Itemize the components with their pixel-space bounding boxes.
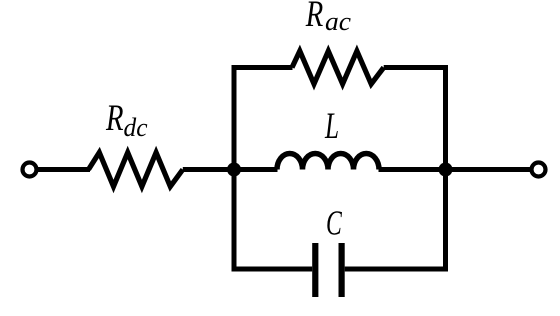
svg-text:L: L [324,106,339,147]
wire Rdc to node A [183,167,236,172]
right terminal [532,163,546,177]
resistor Rdc [89,153,183,187]
svg-text:dc: dc [124,113,148,142]
node B junction dot [439,163,453,177]
wire left terminal to Rdc [37,167,90,172]
node A junction dot [227,163,241,177]
capacitor C right plate [339,243,345,297]
wire bottom rail right [345,267,448,272]
wire middle left [232,167,278,172]
wire node B to right terminal [446,167,532,172]
svg-text:R: R [105,98,123,139]
capacitor C left plate [312,243,318,297]
svg-text:C: C [326,204,342,243]
wire left rail [232,65,237,272]
inductor L [277,154,379,170]
left terminal [23,163,37,177]
wire top rail left [232,65,293,70]
wire middle right [379,167,449,172]
svg-text:ac: ac [325,7,351,36]
wire right rail [443,65,448,272]
svg-text:R: R [305,0,323,35]
wire top rail right [384,65,448,70]
resistor Rac [292,51,384,84]
wire bottom rail left [232,267,313,272]
